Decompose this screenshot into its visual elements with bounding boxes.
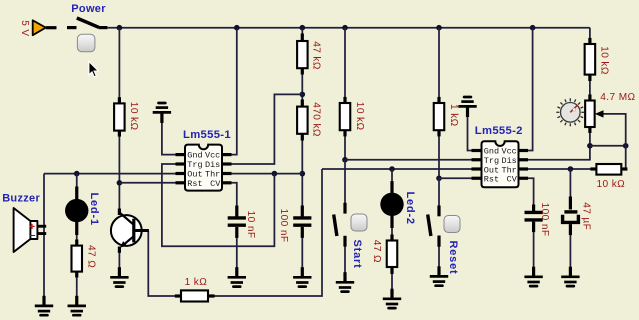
node Rst1 junction [117,180,123,186]
node Thr1-cap junction [300,171,306,177]
svg-text:5 V: 5 V [19,20,30,36]
wire C3 to ground [533,231,535,268]
label SW3 Reset [447,241,459,275]
label R5 1 kΩ [185,277,208,288]
wire Out1 run [44,173,176,175]
node Thr1-Trg riser junction [272,171,278,177]
node wiper-R9 junction [623,143,629,149]
label U2 Lm555-2 [475,125,523,137]
wire Led2 column top [391,169,393,183]
wire Rst2 bus [439,177,472,179]
wire Led2 to R7 [391,227,393,242]
node rail-F x532 [530,25,536,31]
resistor R8 1k reset [434,97,445,136]
wire base riser to R5 [148,231,175,296]
svg-text:Led-1: Led-1 [88,193,100,226]
wire Thr2 drop to C4 [569,169,571,198]
wire C2 to ground [301,237,303,268]
led D2 Led-2 [380,181,403,228]
node Thr2-C4 junction [568,166,574,172]
label C1 10 nF [245,211,256,239]
capacitor C3 100nF [525,205,543,233]
ground led1 [68,296,86,315]
button SW3 [444,216,460,233]
capacitor C1 10nF [228,206,246,238]
svg-text:1 kΩ: 1 kΩ [185,277,208,288]
wire R47-1 to ground [76,277,78,296]
svg-text:Buzzer: Buzzer [2,193,40,205]
wire C4 to ground [569,235,571,268]
label V1 5 V [19,20,30,36]
label SW2 Start [351,240,363,269]
wire Thr1 run [232,173,303,175]
label R7 47 Ω [371,240,382,263]
node 47k-470k junction [300,92,306,98]
label R6 10 kΩ [354,102,365,131]
resistor R4 47R led1 [72,240,83,278]
capacitor C4 47uF electrolytic [563,197,579,236]
svg-text:47 kΩ: 47 kΩ [311,41,322,70]
svg-text:–: – [30,230,36,241]
label R1 10 kΩ [128,102,139,131]
button SW2 [351,214,367,231]
label D1 Led-1 [88,193,100,226]
node rail-D x345 [342,25,348,31]
svg-text:Power: Power [71,3,106,15]
resistor R1 10k [114,97,125,136]
wire Vcc2 riser [528,28,533,151]
ground start [336,272,354,291]
svg-text:CV: CV [507,175,518,185]
ground flipped chip2 [458,97,476,117]
svg-text:10 kΩ: 10 kΩ [354,102,365,131]
ground reset [430,266,448,285]
wire wiper run [602,114,626,146]
node rail-A x119 [117,25,123,31]
label D2 Led-2 [404,192,416,225]
wire Trg2 bus [345,159,472,161]
svg-text:Lm555-1: Lm555-1 [183,129,231,141]
wire Start switch to ground [344,246,346,273]
svg-text:Dis: Dis [205,160,220,170]
svg-text:Lm555-2: Lm555-2 [475,125,523,137]
wire Led1 column [76,174,78,188]
svg-text:Reset: Reset [447,241,459,275]
op-amp U1 Lm555-1 body [176,145,232,191]
potentiometer RV1 4.7M [585,95,603,134]
node Rst2 junction [436,175,442,181]
resistor R9 10k horizontal right [590,164,627,175]
mouse cursor [89,62,98,77]
ground C2 [293,267,311,286]
ground C4 [561,267,579,286]
switch SW3 Reset [428,206,441,247]
resistor R10 10k top right [585,38,596,81]
label R10 10 kΩ [599,46,610,75]
wire Vcc1 riser [232,28,237,155]
op-amp U2 Lm555-2 body [472,141,529,187]
capacitor C2 100nF [293,206,311,238]
resistor R2 47k [297,34,308,75]
ground buzzer [35,296,53,315]
wire rail drop to R8 1k [438,28,440,98]
svg-text:100 nF: 100 nF [278,209,289,243]
transistor Q1 [111,209,149,253]
resistor R3 470k [297,100,308,141]
svg-text:CV: CV [210,179,221,189]
label SW1 Power [71,3,106,15]
wire Rst1 pin lead [119,182,175,184]
ground flipped chip1 [153,103,171,123]
wire R10 to pot [589,81,591,97]
switch SW2 Start [334,203,347,247]
wire CV2 drop to C3 [528,178,534,205]
svg-text:Rst: Rst [187,179,202,189]
wire Trg2 to Start switch [344,160,346,204]
led D1 Led-1 [65,187,88,236]
wire R7 to ground [391,273,393,290]
wire emitter to ground [118,252,120,268]
label C3 100 nF [539,203,550,237]
voltage source V1 5V [33,20,57,35]
wire Out2 bus [322,168,472,170]
label R3 470 kΩ [310,102,321,137]
wire Thr2 run [528,168,596,170]
ground C1 [228,267,246,286]
wire Dis2 run [528,146,590,160]
ground C3 [524,267,542,286]
wire Reset switch to ground [438,246,440,267]
svg-text:Trg: Trg [187,160,202,170]
node rail-B x237 [234,25,240,31]
wire R8 to Rst2 node [438,136,440,179]
label R4 47 Ω [86,245,97,268]
svg-text:Rst: Rst [484,175,499,185]
svg-text:1 kΩ: 1 kΩ [448,104,459,127]
label R9 10 kΩ [597,179,626,190]
label U1 Lm555-1 [183,129,231,141]
svg-text:47 Ω: 47 Ω [371,240,382,263]
wire Led1 to R47 [76,233,78,241]
wire 47k to node Dis1 [301,75,303,102]
resistor R6 10k start [340,97,351,136]
resistor R5 1k horizontal [175,290,215,301]
svg-text:Led-2: Led-2 [404,192,416,225]
label RV1 4.7 MΩ [600,92,635,103]
label C4 47 µF [581,202,592,230]
wire rail corner drop to R10 [589,28,591,39]
wire buzzer riser [43,174,45,297]
node rail-C x302 [300,25,306,31]
wire rail drop to R6 10k [344,28,346,98]
label R8 1 kΩ [448,104,459,127]
potentiometer knob [556,98,584,126]
wire R5 to Out2 riser [214,169,322,296]
wire Dis1 run [232,94,303,164]
buzzer BZ1 [14,208,47,252]
wire top power rail [107,27,590,29]
wire Gnd2 lead [468,117,472,151]
label BZ1 Buzzer [2,193,40,205]
svg-text:10 kΩ: 10 kΩ [597,179,626,190]
wire R9 right lead riser [622,146,626,169]
svg-text:4.7 MΩ: 4.7 MΩ [600,92,635,103]
wire rail drop to R2 47k [301,28,303,35]
svg-text:10 kΩ: 10 kΩ [128,102,139,131]
label R2 47 kΩ [311,41,322,70]
svg-text:Start: Start [351,240,363,269]
svg-text:470 kΩ: 470 kΩ [310,102,321,137]
ground emitter [110,267,128,286]
label C2 100 nF [278,209,289,243]
svg-text:10 nF: 10 nF [245,211,256,239]
node Out2-Led2 junction [389,166,395,172]
wire rail drop to R1 [118,28,120,98]
wire C1 to ground [236,237,238,268]
node Out1-Led1 junction [74,171,80,177]
node pot-bottom junction [587,143,593,149]
button SW1 [77,34,95,52]
svg-text:100 nF: 100 nF [539,203,550,237]
wire Gnd1 lead [162,122,176,155]
wire R1 to Rst node and collector [118,136,120,210]
node rail-E x439 [436,25,442,31]
wire Rst2 to Reset switch [438,178,440,206]
pin labels U1 [187,151,221,189]
wire pot node link [590,145,626,147]
svg-text:47 µF: 47 µF [581,202,592,230]
switch SW1 Power [67,18,107,29]
svg-text:10 kΩ: 10 kΩ [599,46,610,75]
wire 470k to Thr node [301,141,303,207]
ground led2 [383,289,401,308]
resistor R7 47R led2 [387,235,398,275]
wire CV1 drop to C1 [232,183,237,207]
wire R6 to Trg2 node [344,136,346,160]
wire Trg1 loop [162,164,275,246]
pin labels U2 [484,147,518,185]
wire pot bottom to node [589,132,591,146]
node Trg2 junction [342,157,348,163]
svg-text:47 Ω: 47 Ω [86,245,97,268]
